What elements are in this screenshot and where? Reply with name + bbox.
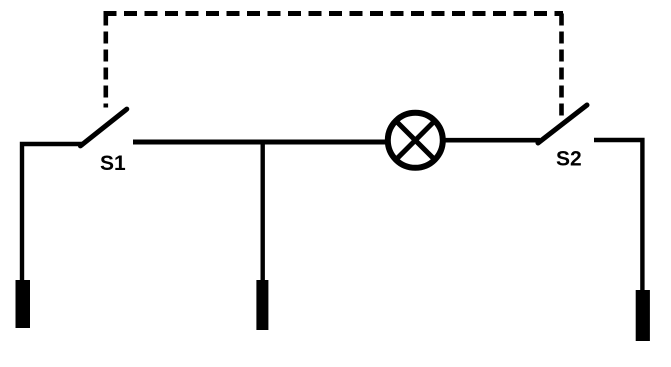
lamp L1 cross stroke 1 (396, 121, 435, 160)
terminal T1 (left bar) (16, 280, 31, 328)
wire: main horizontal from S1 to lamp (133, 140, 386, 145)
wire: horizontal from lamp to S2 (446, 138, 541, 143)
dashed control wire: top horizontal segment (104, 11, 564, 16)
switch S1 blade (80, 109, 126, 146)
svg-text:S1: S1 (100, 152, 126, 175)
switch S2 blade (538, 105, 587, 143)
terminal T3 (right bar) (636, 290, 650, 341)
svg-text:S2: S2 (556, 148, 582, 171)
wire: middle branch vertical down (261, 142, 265, 281)
wire: right branch (horizontal + vertical down) (594, 140, 642, 291)
wire: left branch (horizontal + vertical down) (22, 144, 84, 281)
terminal T2 (middle bar) (256, 280, 268, 330)
lamp L1 circle (388, 113, 443, 168)
dashed control wire: right vertical segment (559, 14, 564, 122)
dashed control wire: left vertical segment (104, 14, 109, 108)
lamp L1 cross stroke 2 (396, 121, 435, 160)
